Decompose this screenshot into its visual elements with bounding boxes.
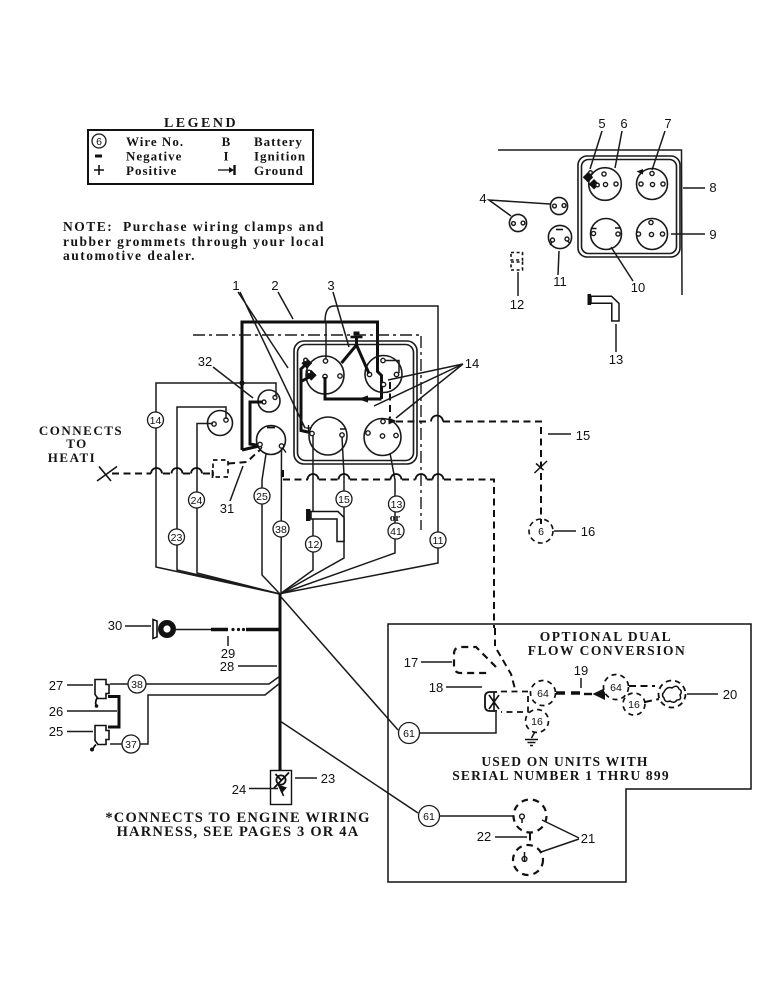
dashed links to item 20 <box>629 686 659 702</box>
svg-text:16: 16 <box>581 524 595 539</box>
svg-text:TO: TO <box>66 436 88 451</box>
dashed housing right of 18 <box>501 692 528 713</box>
connector item 18 <box>485 692 497 711</box>
svg-text:1: 1 <box>232 278 239 293</box>
circled 38 lower <box>128 675 146 693</box>
cluster panel P2 inner border <box>582 160 677 254</box>
circled 61 upper <box>399 723 420 744</box>
terminal diamonds on G1 <box>301 358 312 369</box>
gauge G2 pins <box>381 358 385 362</box>
label 20 <box>687 693 718 695</box>
svg-text:13: 13 <box>391 499 403 511</box>
svg-text:16: 16 <box>531 716 543 728</box>
svg-text:SERIAL NUMBER 1 THRU 899: SERIAL NUMBER 1 THRU 899 <box>452 768 670 783</box>
connector 27 <box>95 680 109 699</box>
dashed lead from above to 18 <box>494 628 496 646</box>
svg-text:I: I <box>223 149 228 164</box>
gauge G6 (top-right of P2) <box>637 169 668 200</box>
legend positive symbol <box>94 165 104 175</box>
svg-text:32: 32 <box>198 354 212 369</box>
circled 37 <box>122 735 140 753</box>
svg-text:19: 19 <box>574 663 588 678</box>
circled 38 <box>273 521 289 537</box>
svg-text:or: or <box>390 512 401 524</box>
wire 13/41 run <box>280 453 395 594</box>
svg-text:61: 61 <box>403 728 415 740</box>
svg-text:11: 11 <box>553 274 567 289</box>
svg-text:23: 23 <box>171 532 183 544</box>
svg-text:38: 38 <box>275 524 287 536</box>
svg-text:20: 20 <box>723 687 737 702</box>
svg-text:13: 13 <box>609 352 623 367</box>
wire 23 run <box>177 407 280 594</box>
callout line 11 <box>558 251 559 275</box>
circled 12 <box>306 536 322 552</box>
svg-text:LEGEND: LEGEND <box>164 116 238 131</box>
ignition feed Y wire (item 3) <box>342 338 370 374</box>
dash-dot trim line vertical <box>420 336 422 530</box>
svg-text:Ground: Ground <box>254 163 304 178</box>
diagonal lead to circled 61 upper <box>281 597 398 730</box>
gauge G8 (bottom-right of P2) <box>637 219 668 250</box>
svg-text:21: 21 <box>581 831 595 846</box>
callout lines 1 <box>238 292 305 428</box>
boundary wire 11 top run <box>281 306 438 594</box>
arrow on dashed wire 14 <box>389 418 397 425</box>
wire from boundary to gauge G1 top pin <box>325 322 327 360</box>
svg-text:9: 9 <box>709 227 716 242</box>
item 20 motor scribble <box>659 681 686 708</box>
gauge G5 pins <box>602 172 606 176</box>
gauge G5 (top-left of P2) <box>589 168 622 201</box>
bracket 13 (elbow fitting) <box>591 296 619 321</box>
svg-text:25: 25 <box>49 724 63 739</box>
svg-text:rubber grommets through your l: rubber grommets through your local <box>63 234 325 249</box>
svg-text:26: 26 <box>49 704 63 719</box>
svg-text:4: 4 <box>479 191 486 206</box>
legend negative symbol <box>95 155 102 158</box>
panel lower dashed wire <box>282 470 284 478</box>
circled 41 <box>388 523 404 539</box>
connector 25 <box>95 726 109 745</box>
thick jumper G1 center to G2 bottom <box>325 377 382 399</box>
dash-dot trim line horizontal <box>193 334 420 336</box>
svg-text:7: 7 <box>664 116 671 131</box>
wire 24 run <box>197 424 280 595</box>
heater dashed wire <box>97 467 117 482</box>
heavy dashed link 19 <box>556 691 582 694</box>
connector 12 dashed housing <box>511 253 523 271</box>
dashed connector circle 6 <box>529 519 553 543</box>
svg-text:12: 12 <box>510 297 524 312</box>
label 15 <box>548 433 571 435</box>
dashed circle 16 b <box>623 693 645 715</box>
wire 37 to harness <box>140 683 280 744</box>
gauge G4 (panel bottom-right) <box>364 419 401 456</box>
svg-text:12: 12 <box>308 539 320 551</box>
dashed wire 15 run to right <box>396 421 430 423</box>
svg-text:64: 64 <box>537 688 549 700</box>
jumper wire 26 thick <box>108 697 119 728</box>
gauge G32 (small, left) <box>258 390 280 412</box>
circled 61 lower <box>419 806 440 827</box>
svg-text:3: 3 <box>327 278 334 293</box>
callout line 5 <box>590 131 602 169</box>
dashed circle 64 b <box>604 675 629 700</box>
gauge G6 pins <box>650 171 654 175</box>
svg-text:OPTIONAL DUAL: OPTIONAL DUAL <box>540 629 672 644</box>
gauge G3 (panel bottom-left) <box>309 417 347 455</box>
terminal diamond pair on G5 <box>583 172 593 182</box>
svg-text:23: 23 <box>321 771 335 786</box>
svg-text:2: 2 <box>271 278 278 293</box>
svg-text:18: 18 <box>429 680 443 695</box>
gauge G1 pins <box>323 359 327 363</box>
svg-text:17: 17 <box>404 655 418 670</box>
gauge G7 pins <box>591 231 595 235</box>
svg-text:6: 6 <box>620 116 627 131</box>
svg-text:25: 25 <box>256 491 268 503</box>
wire 29 lead <box>176 629 211 631</box>
svg-text:30: 30 <box>108 618 122 633</box>
svg-text:6: 6 <box>96 136 102 148</box>
svg-text:11: 11 <box>433 535 444 547</box>
legend box <box>88 130 313 184</box>
svg-text:10: 10 <box>631 280 645 295</box>
svg-text:USED ON UNITS WITH: USED ON UNITS WITH <box>481 754 648 769</box>
svg-text:27: 27 <box>49 678 63 693</box>
svg-text:6: 6 <box>538 526 544 538</box>
arrow on jumper <box>358 396 369 403</box>
wire 38 to harness <box>146 676 280 684</box>
instrument panel inner border <box>298 345 414 461</box>
gauge G2 (panel top-right) <box>365 356 402 393</box>
dashed connector 21 upper <box>514 800 547 833</box>
svg-text:Battery: Battery <box>254 134 303 149</box>
harness trunk thick wire <box>279 594 282 778</box>
svg-text:38: 38 <box>131 679 143 691</box>
arrow wedge into 64b <box>593 688 606 700</box>
dashed circle 64 a <box>531 681 556 706</box>
callout line 32 <box>213 367 253 398</box>
dashed link between 21 connectors <box>529 834 531 847</box>
connector circle C11 <box>548 225 571 248</box>
gauge G4 pins <box>381 419 385 423</box>
svg-text:31: 31 <box>220 501 234 516</box>
thick wire 1 to terminal diamonds <box>300 364 311 433</box>
callout line 9 <box>671 233 705 235</box>
wire 61b to connector 21 <box>440 815 515 817</box>
svg-text:61: 61 <box>423 811 435 823</box>
svg-text:15: 15 <box>338 494 350 506</box>
cluster panel P2 outer border <box>578 156 680 257</box>
svg-text:5: 5 <box>598 116 605 131</box>
dashed lead from 31 to G25 <box>228 451 259 464</box>
diagonal lead to circled 61 lower <box>280 721 418 813</box>
connector 31 dashed housing <box>213 460 228 477</box>
circled 15 <box>336 491 352 507</box>
dashed wire 14 inside panel <box>389 382 391 418</box>
gauge G7 (bottom-left of P2) <box>591 219 622 250</box>
harness cover thick outline (item 2) <box>242 322 382 450</box>
gauge G24 (small, lower-left) <box>208 411 233 436</box>
clamp item 30 <box>153 620 157 639</box>
svg-text:automotive dealer.: automotive dealer. <box>63 248 196 263</box>
callout lines 4 <box>489 200 550 216</box>
thick loop G32 to G25 <box>250 402 263 446</box>
fuse holder (items 23/24) <box>271 771 292 805</box>
svg-text:HEATI: HEATI <box>48 450 96 465</box>
ground under 16a <box>532 733 535 739</box>
svg-text:41: 41 <box>390 526 402 538</box>
svg-text:Wire No.: Wire No. <box>126 134 184 149</box>
svg-text:64: 64 <box>610 682 622 694</box>
wire 38 run <box>280 448 283 594</box>
label 16 <box>554 530 576 532</box>
callout line 8 <box>683 187 705 189</box>
instrument panel outer border <box>294 341 417 464</box>
svg-text:FLOW CONVERSION: FLOW CONVERSION <box>528 643 686 658</box>
legend wire-no symbol (circled 6) <box>92 134 106 148</box>
svg-text:22: 22 <box>477 829 491 844</box>
gauge G3 pins <box>310 431 314 435</box>
callout lines 14 <box>374 364 463 418</box>
circled 25 <box>254 488 270 504</box>
callout line 7 <box>652 131 665 170</box>
callout line 6 <box>615 131 622 168</box>
speedometer fitting (item 12 elbow) <box>311 512 344 542</box>
circled 13 <box>389 496 405 512</box>
connector circle C4a <box>550 197 567 214</box>
gauge G25 (large, below G32) <box>257 426 286 455</box>
callout line 10 <box>611 247 633 281</box>
svg-text:HARNESS, SEE PAGES 3 OR 4A: HARNESS, SEE PAGES 3 OR 4A <box>117 824 360 840</box>
callout line 12 <box>517 272 519 296</box>
svg-text:37: 37 <box>125 739 137 751</box>
svg-text:15: 15 <box>576 428 590 443</box>
svg-text:28: 28 <box>220 659 234 674</box>
svg-text:Negative: Negative <box>126 149 182 164</box>
svg-text:24: 24 <box>191 495 203 507</box>
dashed connector 21 lower <box>513 845 543 875</box>
wire 25 run <box>262 454 280 594</box>
wire 14 run (left) <box>156 383 280 594</box>
boundary line top right <box>498 150 682 295</box>
junction dot wire14/cover <box>239 380 244 385</box>
svg-text:Positive: Positive <box>126 163 177 178</box>
callout line 13 <box>615 324 617 352</box>
legend ground symbol <box>218 169 231 171</box>
G3 polarity marks <box>306 425 312 431</box>
svg-text:14: 14 <box>465 356 479 371</box>
box outline <box>388 624 751 882</box>
svg-text:NOTE: Purchase wiring clamps: NOTE: Purchase wiring clamps and <box>63 219 325 234</box>
dashed circle 16 a <box>526 710 549 733</box>
circled 11 <box>430 532 446 548</box>
circled 14 <box>148 412 164 428</box>
svg-text:B: B <box>222 134 231 149</box>
gauge G8 pins <box>649 220 653 224</box>
svg-text:Ignition: Ignition <box>254 149 306 164</box>
svg-text:8: 8 <box>709 180 716 195</box>
terminal wedge on G6 <box>637 169 644 175</box>
circled 23 <box>169 529 185 545</box>
circled 24 <box>189 492 205 508</box>
connector circle C4b <box>509 214 526 231</box>
gauge G1 (panel top-left) <box>306 356 344 394</box>
wire 12 run <box>280 436 313 594</box>
thick lead to gauge G25 from cover edge <box>242 446 259 450</box>
switch slash on wire 15 <box>535 461 548 473</box>
svg-text:14: 14 <box>150 415 162 427</box>
dashed bracket 17 <box>454 647 496 673</box>
wire 15a run <box>280 437 344 594</box>
wire 61a to connector 18 <box>420 712 497 733</box>
item 3 terminal cap <box>351 336 363 339</box>
svg-text:24: 24 <box>232 782 246 797</box>
svg-text:16: 16 <box>628 699 640 711</box>
G2 internal jumper <box>386 361 400 374</box>
